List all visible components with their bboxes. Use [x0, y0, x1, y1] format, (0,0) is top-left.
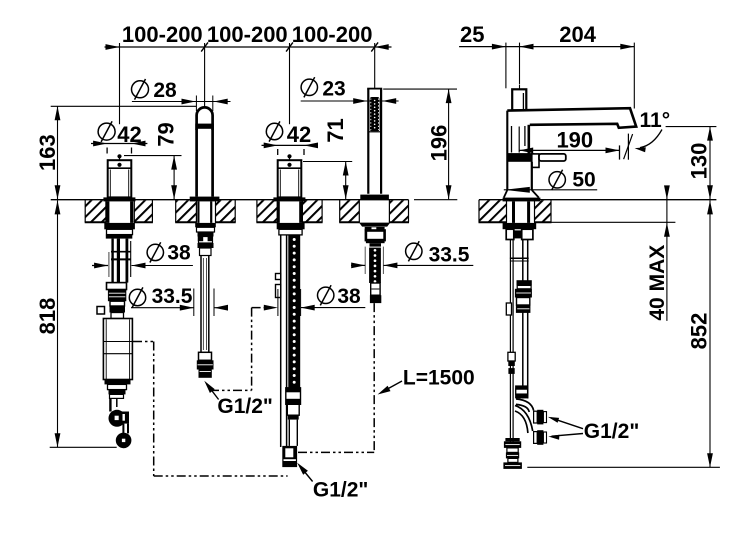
svg-text:28: 28 — [153, 79, 177, 102]
svg-text:G1/2": G1/2" — [584, 420, 639, 443]
svg-text:190: 190 — [556, 128, 593, 153]
svg-text:G1/2": G1/2" — [313, 479, 368, 502]
svg-text:33.5: 33.5 — [152, 285, 193, 308]
svg-text:852: 852 — [687, 313, 712, 350]
svg-text:79: 79 — [153, 122, 178, 146]
svg-text:38: 38 — [167, 242, 191, 265]
svg-text:100-200: 100-200 — [122, 22, 203, 47]
svg-text:100-200: 100-200 — [207, 22, 288, 47]
svg-text:50: 50 — [572, 168, 595, 191]
svg-text:33.5: 33.5 — [429, 244, 470, 267]
svg-text:38: 38 — [337, 285, 361, 308]
svg-text:71: 71 — [323, 118, 348, 142]
svg-text:130: 130 — [687, 143, 712, 180]
svg-text:G1/2": G1/2" — [217, 395, 272, 418]
svg-text:100-200: 100-200 — [292, 22, 373, 47]
svg-text:196: 196 — [427, 125, 452, 162]
svg-text:42: 42 — [117, 122, 141, 147]
svg-text:818: 818 — [35, 298, 60, 335]
svg-text:204: 204 — [559, 22, 596, 47]
svg-text:23: 23 — [322, 77, 345, 100]
svg-text:42: 42 — [287, 122, 311, 147]
svg-text:L=1500: L=1500 — [403, 366, 475, 389]
svg-text:25: 25 — [460, 22, 484, 47]
svg-text:40 MAX: 40 MAX — [646, 245, 669, 321]
svg-text:11°: 11° — [640, 109, 671, 132]
svg-text:163: 163 — [35, 134, 60, 171]
